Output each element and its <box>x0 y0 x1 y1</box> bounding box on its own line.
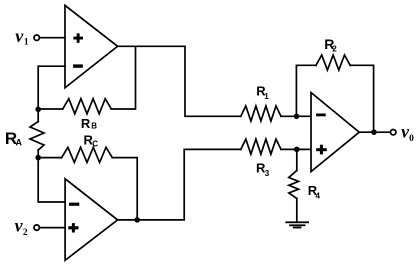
svg-text:A: A <box>16 138 23 148</box>
svg-text:C: C <box>92 139 98 148</box>
svg-text:2: 2 <box>23 228 28 238</box>
svg-text:0: 0 <box>409 134 414 144</box>
svg-text:3: 3 <box>265 169 270 178</box>
svg-text:B: B <box>91 122 97 131</box>
svg-text:R: R <box>81 116 91 131</box>
svg-text:1: 1 <box>264 92 269 101</box>
svg-text:2: 2 <box>332 44 337 53</box>
svg-text:v: v <box>15 26 24 46</box>
svg-text:4: 4 <box>316 192 321 201</box>
svg-text:1: 1 <box>24 38 29 48</box>
